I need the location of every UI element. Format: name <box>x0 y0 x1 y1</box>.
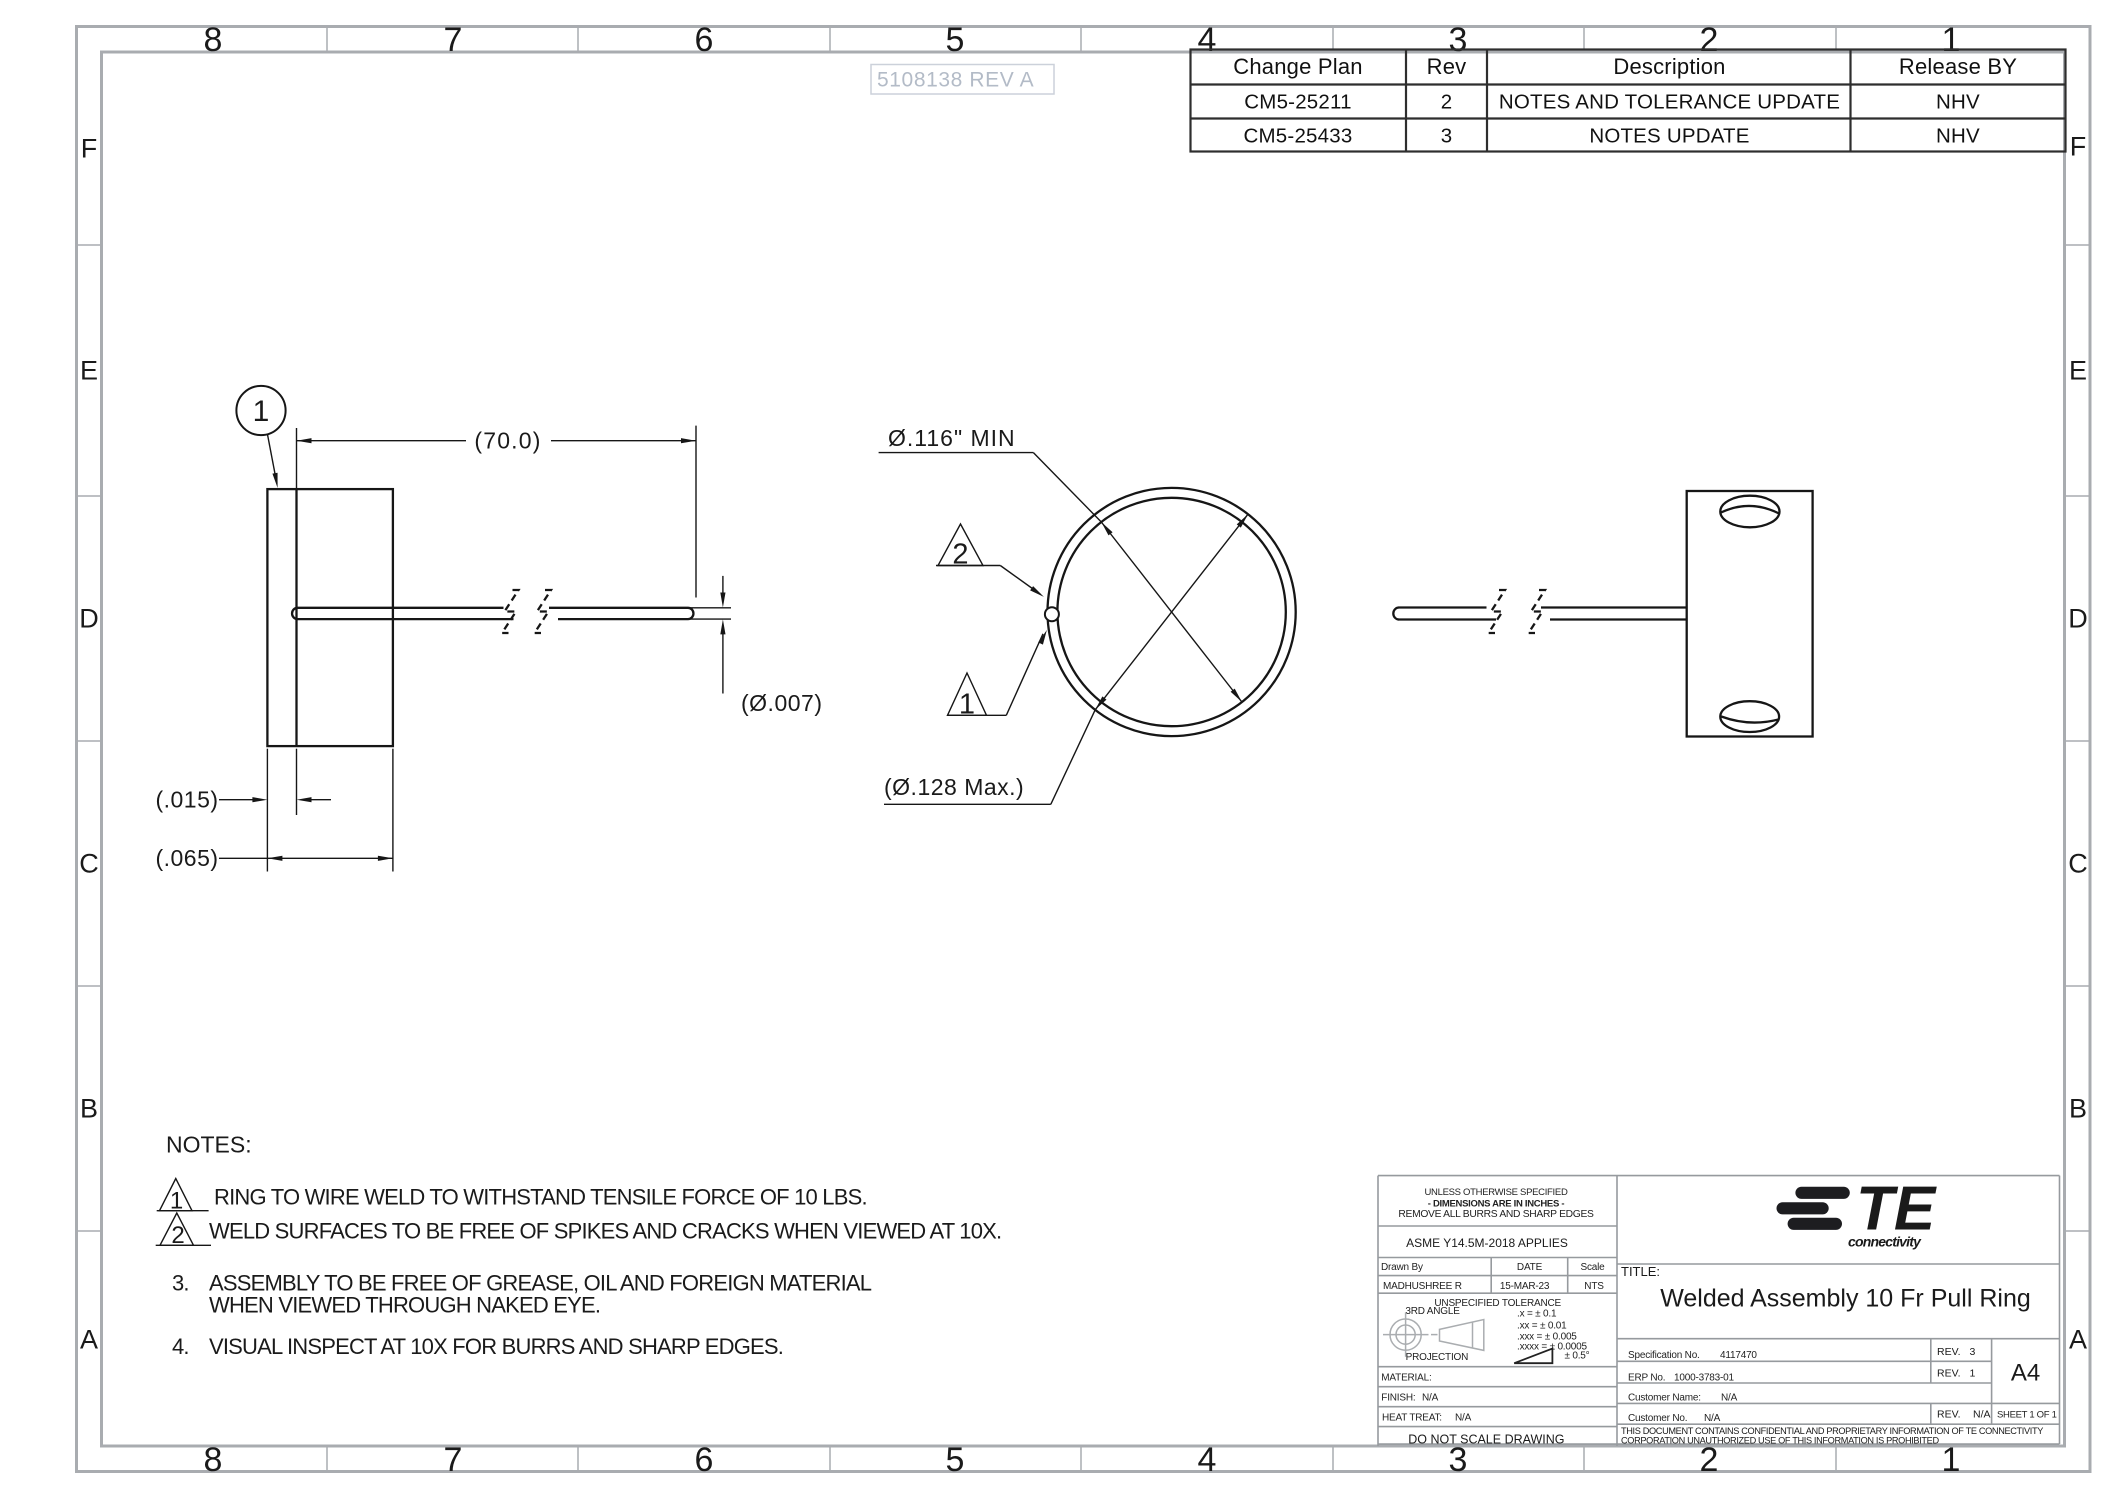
svg-text:N/A: N/A <box>1455 1413 1472 1424</box>
svg-text:Change Plan: Change Plan <box>1233 54 1362 79</box>
svg-text:D: D <box>79 604 99 634</box>
svg-text:A: A <box>80 1325 98 1355</box>
svg-text:MADHUSHREE R: MADHUSHREE R <box>1383 1281 1462 1292</box>
svg-text:SHEET 1 OF 1: SHEET 1 OF 1 <box>1997 1410 2057 1421</box>
svg-text:6: 6 <box>695 1441 714 1479</box>
svg-text:REV.: REV. <box>1937 1346 1961 1358</box>
svg-text:Release BY: Release BY <box>1899 54 2017 79</box>
svg-text:N/A: N/A <box>1422 1393 1439 1404</box>
svg-text:(70.0): (70.0) <box>474 428 541 454</box>
svg-text:C: C <box>2068 849 2088 879</box>
svg-text:3: 3 <box>1449 1441 1468 1479</box>
svg-text:4: 4 <box>1198 21 1217 59</box>
svg-text:5108138 REV A: 5108138 REV A <box>877 69 1034 92</box>
svg-text:RING TO WIRE WELD TO WITHSTAND: RING TO WIRE WELD TO WITHSTAND TENSILE F… <box>214 1185 867 1210</box>
svg-text:CM5-25433: CM5-25433 <box>1244 125 1353 148</box>
svg-text:Rev: Rev <box>1427 54 1467 79</box>
svg-text:REMOVE ALL BURRS AND SHARP EDG: REMOVE ALL BURRS AND SHARP EDGES <box>1398 1209 1594 1220</box>
svg-text:(Ø.128 Max.): (Ø.128 Max.) <box>884 774 1024 800</box>
svg-text:3: 3 <box>1441 125 1453 148</box>
svg-text:8: 8 <box>204 21 223 59</box>
svg-text:HEAT TREAT:: HEAT TREAT: <box>1382 1413 1442 1424</box>
svg-text:Welded Assembly 10 Fr Pull Rin: Welded Assembly 10 Fr Pull Ring <box>1660 1285 2031 1313</box>
svg-text:Customer No.: Customer No. <box>1628 1413 1687 1424</box>
svg-text:A4: A4 <box>2011 1360 2040 1387</box>
svg-text:7: 7 <box>444 21 463 59</box>
svg-text:15-MAR-23: 15-MAR-23 <box>1500 1281 1550 1292</box>
svg-text:F: F <box>81 134 98 164</box>
svg-text:(.015): (.015) <box>155 787 218 813</box>
svg-text:A: A <box>2069 1325 2087 1355</box>
svg-text:CM5-25211: CM5-25211 <box>1244 91 1351 114</box>
svg-text:.xx = ± 0.01: .xx = ± 0.01 <box>1517 1320 1567 1331</box>
svg-text:2: 2 <box>1700 1441 1719 1479</box>
svg-text:4: 4 <box>1198 1441 1217 1479</box>
svg-text:1: 1 <box>1942 1441 1961 1479</box>
svg-text:N/A: N/A <box>1973 1409 1991 1421</box>
svg-text:5: 5 <box>946 21 965 59</box>
svg-text:ERP No.: ERP No. <box>1628 1373 1665 1384</box>
svg-text:VISUAL INSPECT AT 10X FOR BURR: VISUAL INSPECT AT 10X FOR BURRS AND SHAR… <box>209 1334 783 1359</box>
svg-text:1: 1 <box>1970 1368 1976 1380</box>
svg-text:3RD ANGLE: 3RD ANGLE <box>1405 1306 1460 1317</box>
svg-text:NTS: NTS <box>1584 1281 1604 1292</box>
svg-text:6: 6 <box>695 21 714 59</box>
svg-text:7: 7 <box>444 1441 463 1479</box>
svg-text:DO NOT SCALE DRAWING: DO NOT SCALE DRAWING <box>1408 1433 1564 1447</box>
svg-text:NHV: NHV <box>1936 125 1980 148</box>
svg-text:FINISH:: FINISH: <box>1381 1393 1415 1404</box>
svg-text:NHV: NHV <box>1936 91 1980 114</box>
svg-text:4.: 4. <box>172 1334 189 1359</box>
svg-text:- DIMENSIONS ARE IN INCHES -: - DIMENSIONS ARE IN INCHES - <box>1428 1198 1565 1209</box>
svg-text:B: B <box>80 1094 98 1124</box>
svg-text:WELD SURFACES TO BE FREE OF SP: WELD SURFACES TO BE FREE OF SPIKES AND C… <box>209 1219 1001 1244</box>
svg-text:connectivity: connectivity <box>1848 1234 1922 1250</box>
svg-text:ASME Y14.5M-2018 APPLIES: ASME Y14.5M-2018 APPLIES <box>1406 1236 1568 1250</box>
svg-text:1: 1 <box>253 395 270 428</box>
svg-text:DATE: DATE <box>1517 1262 1543 1273</box>
svg-text:3.: 3. <box>172 1271 189 1296</box>
svg-text:E: E <box>2069 356 2087 386</box>
svg-text:Ø.116" MIN: Ø.116" MIN <box>888 425 1016 451</box>
svg-text:8: 8 <box>204 1441 223 1479</box>
svg-text:D: D <box>2068 604 2088 634</box>
svg-text:4117470: 4117470 <box>1720 1350 1757 1361</box>
svg-text:REV.: REV. <box>1937 1409 1961 1421</box>
svg-text:NOTES:: NOTES: <box>166 1132 252 1158</box>
svg-text:F: F <box>2070 132 2087 162</box>
svg-text:.x = ± 0.1: .x = ± 0.1 <box>1517 1309 1557 1320</box>
svg-text:WHEN VIEWED THROUGH NAKED EYE.: WHEN VIEWED THROUGH NAKED EYE. <box>209 1293 600 1318</box>
svg-text:1000-3783-01: 1000-3783-01 <box>1674 1373 1735 1384</box>
svg-text:UNLESS OTHERWISE SPECIFIED: UNLESS OTHERWISE SPECIFIED <box>1425 1187 1568 1198</box>
svg-text:N/A: N/A <box>1704 1413 1721 1424</box>
svg-text:Scale: Scale <box>1580 1262 1605 1273</box>
svg-text:CORPORATION UNAUTHORIZED USE O: CORPORATION UNAUTHORIZED USE OF THIS INF… <box>1621 1435 1939 1445</box>
svg-text:C: C <box>79 849 99 879</box>
svg-text:2: 2 <box>1441 91 1453 114</box>
svg-text:PROJECTION: PROJECTION <box>1406 1352 1468 1363</box>
svg-text:NOTES AND TOLERANCE UPDATE: NOTES AND TOLERANCE UPDATE <box>1499 91 1840 114</box>
svg-text:REV.: REV. <box>1937 1368 1961 1380</box>
svg-text:5: 5 <box>946 1441 965 1479</box>
svg-text:TITLE:: TITLE: <box>1621 1264 1660 1279</box>
svg-text:Customer Name:: Customer Name: <box>1628 1392 1701 1403</box>
svg-text:3: 3 <box>1970 1346 1976 1358</box>
svg-text:NOTES UPDATE: NOTES UPDATE <box>1589 125 1749 148</box>
svg-text:(Ø.007): (Ø.007) <box>741 690 822 716</box>
svg-text:N/A: N/A <box>1721 1392 1738 1403</box>
svg-text:Specification No.: Specification No. <box>1628 1350 1700 1361</box>
svg-text:Description: Description <box>1613 54 1725 79</box>
svg-text:MATERIAL:: MATERIAL: <box>1381 1373 1431 1384</box>
svg-text:B: B <box>2069 1094 2087 1124</box>
svg-text:± 0.5°: ± 0.5° <box>1565 1351 1590 1362</box>
svg-text:(.065): (.065) <box>155 845 218 871</box>
svg-text:Drawn By: Drawn By <box>1381 1262 1423 1273</box>
svg-text:E: E <box>80 356 98 386</box>
